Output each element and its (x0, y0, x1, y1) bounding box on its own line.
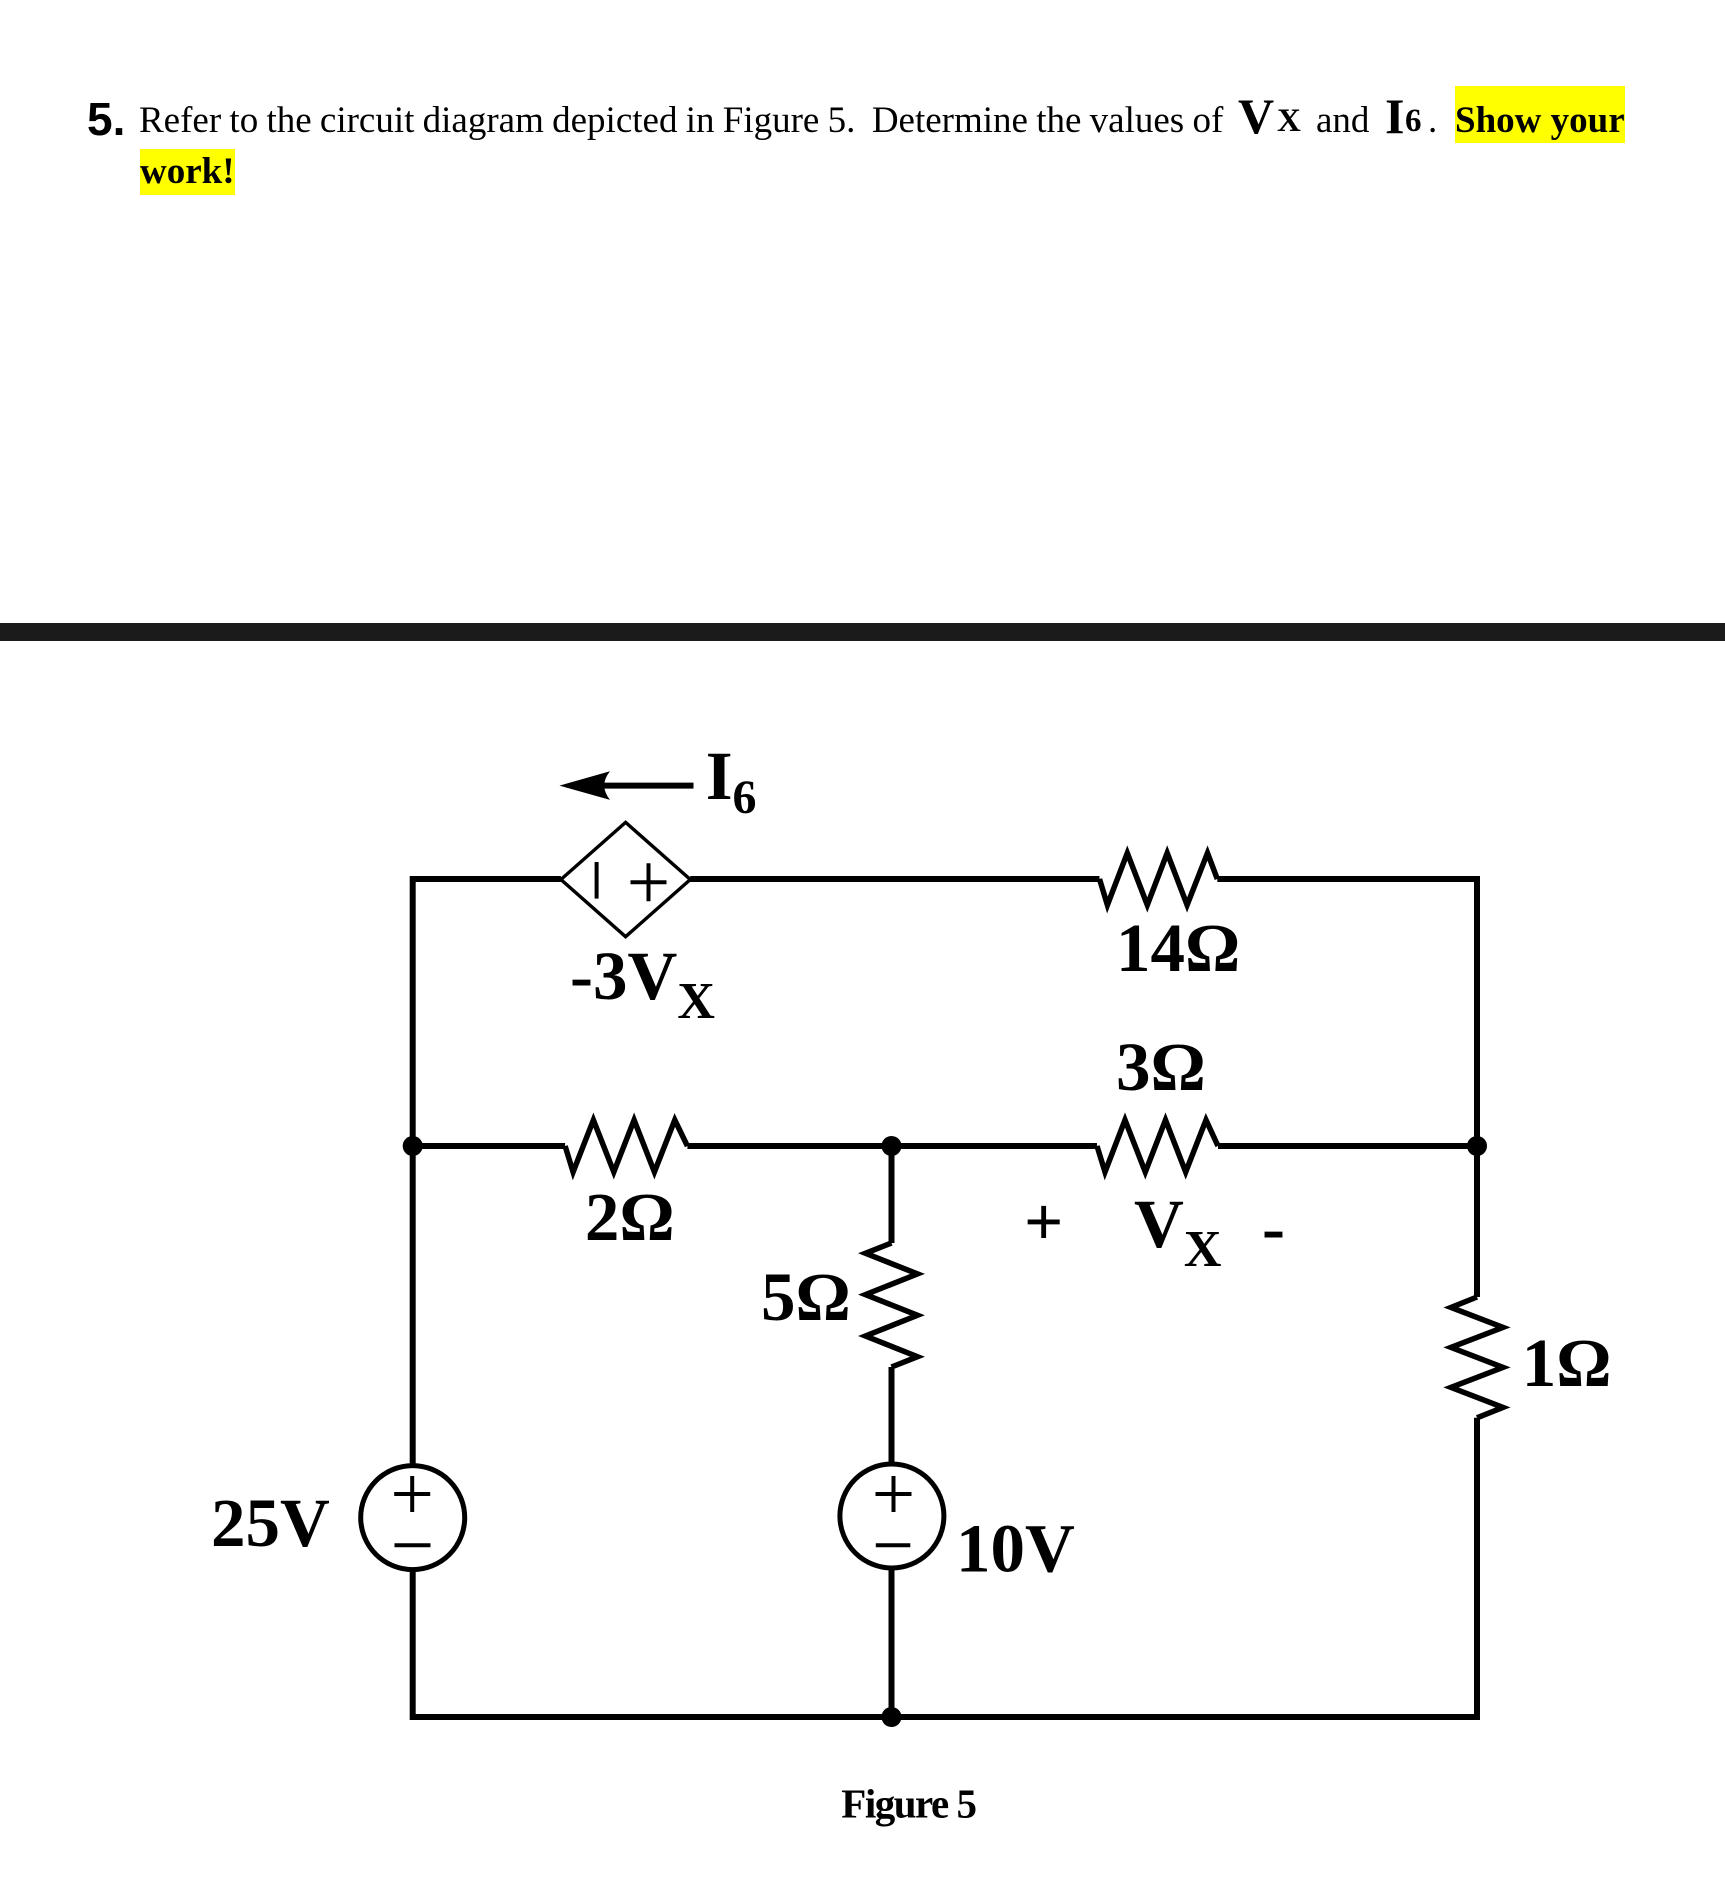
10V voltage source circle (840, 1464, 944, 1568)
svg-text:1Ω: 1Ω (1522, 1325, 1612, 1401)
minus sign in 10V source (876, 1543, 911, 1547)
wire: middle branch down from junction (889, 1146, 895, 1243)
plus sign in 25V source (394, 1476, 430, 1512)
svg-text:2Ω: 2Ω (585, 1179, 675, 1255)
minus sign in 25V source (395, 1543, 431, 1547)
divider bar (0, 623, 1725, 641)
resistor 14ohm zigzag (1100, 853, 1218, 905)
plus sign inside diamond (631, 863, 667, 901)
problem statement line 2 (140, 153, 235, 190)
wire: middle rail center segment (687, 1143, 1097, 1149)
junction node dot middle (882, 1136, 902, 1156)
wire: middle rail right segment (1218, 1143, 1477, 1149)
resistor 5ohm zigzag (866, 1243, 918, 1367)
wire: below 10V source to bottom rail (889, 1569, 895, 1717)
svg-text:Figure 5: Figure 5 (841, 1780, 975, 1826)
svg-text:-: - (1262, 1190, 1285, 1266)
25V voltage source circle (361, 1466, 465, 1570)
resistor 2ohm zigzag (565, 1120, 687, 1172)
wire: from 5ohm down to 10V source (889, 1367, 895, 1463)
label + Vx - (voltage polarity) (1024, 1184, 1285, 1278)
svg-text:VX: VX (1134, 1186, 1221, 1278)
svg-text:I6: I6 (706, 738, 757, 824)
wire: lower right vertical, bottom wire, lower left vertical (413, 1418, 1477, 1717)
svg-text:10V: 10V (956, 1510, 1075, 1586)
wire: middle rail left segment (413, 1143, 565, 1149)
svg-text:-3VX: -3VX (570, 938, 715, 1030)
svg-text:+: + (1024, 1184, 1063, 1260)
minus bar inside diamond (595, 862, 599, 899)
wire: top right corner and upper right vertical (1217, 879, 1477, 1297)
svg-text:14Ω: 14Ω (1116, 910, 1240, 986)
dependent source -3Vx (diamond) (561, 822, 690, 936)
svg-text:25V: 25V (211, 1485, 330, 1561)
wire: top middle segment (690, 876, 1099, 882)
I6 current arrow (559, 771, 693, 800)
junction node dot bottom (882, 1707, 902, 1727)
junction node dot left (403, 1136, 423, 1156)
wire: top-left corner and upper-left vertical (413, 879, 561, 1464)
resistor 3ohm zigzag (1097, 1120, 1218, 1172)
svg-text:3Ω: 3Ω (1116, 1029, 1206, 1105)
resistor 1ohm zigzag (1451, 1297, 1503, 1418)
plus sign in 10V source (876, 1476, 912, 1512)
problem statement line 1 (87, 96, 125, 142)
junction node dot right (1467, 1136, 1487, 1156)
svg-text:5Ω: 5Ω (761, 1259, 851, 1335)
